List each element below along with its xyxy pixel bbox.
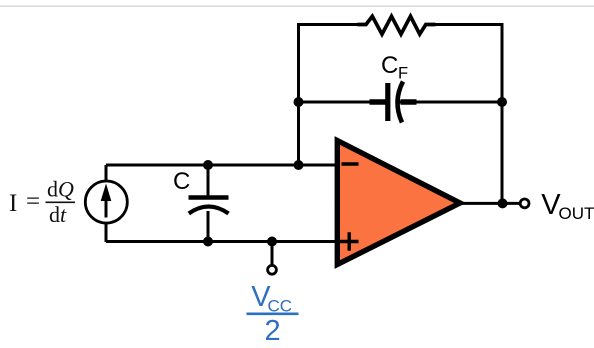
wire: source bottom lead bbox=[105, 222, 108, 242]
terminal: VCC/2 open circle bbox=[268, 265, 277, 274]
svg-text:=: = bbox=[26, 188, 40, 215]
resistor RF zigzag bbox=[358, 16, 436, 34]
op-amp plus sign bbox=[340, 232, 359, 250]
capacitor CF right curved plate bbox=[397, 82, 403, 123]
svg-text:2: 2 bbox=[265, 315, 281, 347]
node: junction dot VCC stub bbox=[267, 237, 277, 247]
wire: source top lead bbox=[105, 165, 108, 180]
terminal: VOUT open circle bbox=[520, 199, 529, 208]
current source I circle bbox=[85, 181, 127, 223]
capacitor CF left plate bbox=[385, 83, 390, 121]
wire: feedback loop top horizontal bbox=[297, 23, 504, 26]
capacitor C top lead bbox=[207, 165, 210, 196]
wire: inverting input horizontal bbox=[106, 164, 336, 167]
wire: VCC/2 stub bbox=[271, 242, 274, 266]
svg-text:I: I bbox=[9, 190, 17, 217]
wire: feedback loop right vertical bbox=[501, 23, 504, 203]
node: junction dot C top bbox=[203, 160, 213, 170]
capacitor C curved bottom plate bbox=[189, 207, 229, 214]
svg-text:dQ: dQ bbox=[47, 177, 74, 202]
capacitor C bottom lead bbox=[207, 211, 210, 242]
node: junction dot output bbox=[498, 198, 508, 208]
top border line bbox=[0, 5, 594, 6]
wire: output bbox=[461, 202, 520, 205]
op-amp U1 triangle bbox=[337, 141, 460, 265]
svg-text:dt: dt bbox=[49, 202, 67, 227]
capacitor C top plate bbox=[189, 195, 229, 199]
svg-text:C: C bbox=[173, 168, 190, 195]
current source arrow bbox=[105, 198, 108, 218]
wire: CF branch horizontal bbox=[298, 101, 502, 104]
node: junction dot feedback-inverting bbox=[294, 160, 304, 170]
wire: feedback loop top left corner vertical bbox=[297, 23, 300, 166]
wire: CF thick leads bbox=[370, 99, 417, 105]
node: junction dot C bottom bbox=[203, 237, 213, 247]
wire: non-inverting input horizontal bbox=[106, 240, 336, 243]
node: junction dot CF-right bbox=[497, 97, 507, 107]
svg-text:OUT: OUT bbox=[559, 204, 594, 223]
svg-text:F: F bbox=[398, 65, 408, 83]
node: junction dot CF-left bbox=[294, 97, 304, 107]
op-amp minus sign bbox=[342, 162, 359, 165]
svg-text:C: C bbox=[381, 52, 398, 79]
